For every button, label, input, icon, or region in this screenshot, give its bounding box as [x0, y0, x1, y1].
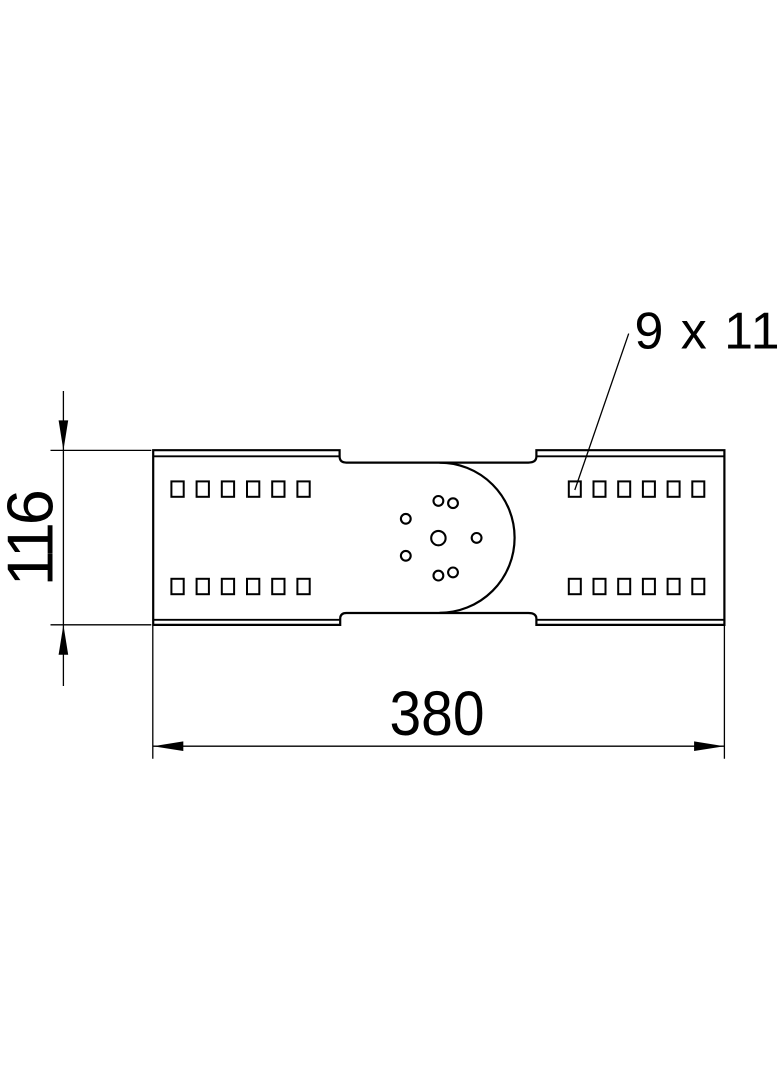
svg-text:380: 380 — [390, 679, 485, 749]
svg-text:9 x 11: 9 x 11 — [635, 303, 780, 361]
svg-text:116: 116 — [0, 491, 66, 586]
